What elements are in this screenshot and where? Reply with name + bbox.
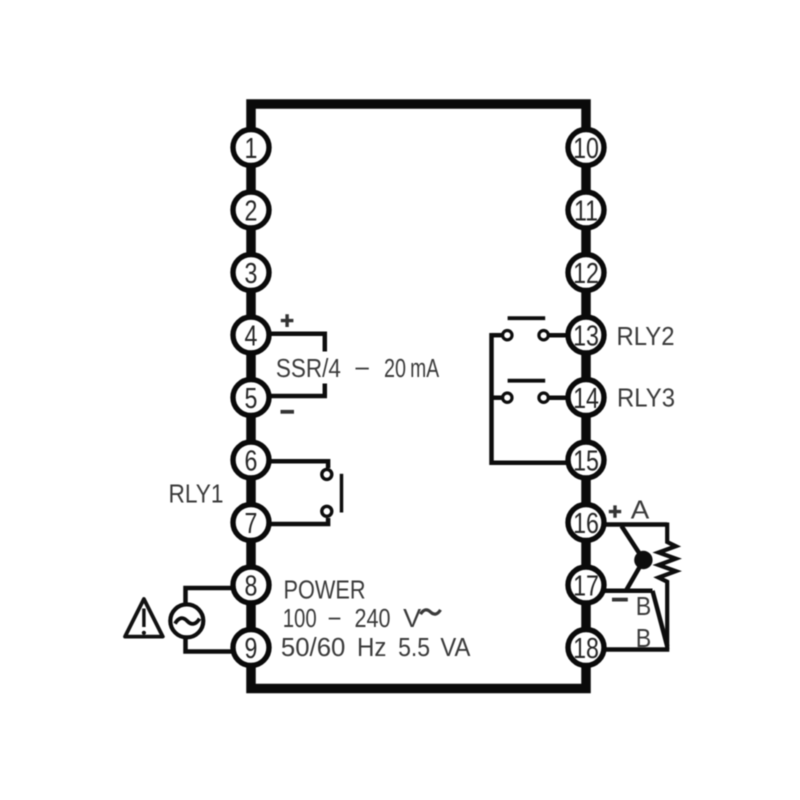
svg-text:17: 17 (573, 569, 599, 602)
terminal 17 (568, 567, 604, 603)
RLY2 contact point right (539, 331, 548, 340)
label 50/60 Hz 5.5 VA (281, 634, 471, 662)
svg-text:18: 18 (573, 631, 599, 664)
svg-text:A: A (631, 497, 650, 525)
svg-text:20: 20 (384, 355, 406, 383)
terminal 2 (233, 192, 269, 228)
svg-text:12: 12 (573, 256, 599, 289)
svg-text:V: V (403, 605, 421, 633)
svg-text:10: 10 (573, 131, 599, 164)
svg-text:16: 16 (573, 506, 599, 539)
svg-text:5.5: 5.5 (398, 634, 430, 662)
RLY1 contact point lower (322, 506, 332, 516)
label 100 - 240 V~ (283, 605, 441, 633)
wire SSR bracket vertical upper (323, 332, 328, 352)
RLY1 contact point upper (322, 469, 332, 479)
plus sign terminal 4 (281, 314, 294, 327)
RLY2 contact point left (503, 331, 512, 340)
svg-text:B: B (636, 593, 652, 621)
label RLY2 (617, 323, 675, 351)
svg-text:7: 7 (245, 506, 258, 539)
svg-text:RLY2: RLY2 (617, 323, 675, 351)
wire terminal 8 to AC source (186, 588, 252, 603)
panel outline (251, 104, 586, 689)
svg-text:3: 3 (245, 256, 258, 289)
svg-text:50/60: 50/60 (281, 634, 346, 662)
terminal 9 (233, 630, 269, 666)
terminal 11 (568, 192, 604, 228)
terminal 12 (568, 255, 604, 291)
terminal 13 (568, 317, 604, 353)
svg-text:RLY3: RLY3 (617, 385, 675, 413)
svg-text:−: − (354, 355, 370, 383)
label POWER (284, 577, 366, 605)
AC source sine (175, 618, 200, 624)
wire terminal 16 to junction (thermocouple +) (622, 526, 644, 560)
warning exclamation bar (142, 609, 145, 628)
label A (631, 497, 650, 525)
svg-text:Hz: Hz (357, 634, 387, 662)
svg-text:−: − (328, 605, 342, 633)
wire terminal 7 to RLY1 contact (251, 518, 328, 524)
label RLY1 (169, 481, 224, 509)
wire RLY2 contact to terminal 13 (548, 333, 566, 338)
plus sign terminal 16 (609, 505, 621, 517)
wire terminal 9 to AC source (186, 639, 252, 652)
wire terminal 5 to SSR bracket bottom (251, 394, 327, 399)
svg-text:POWER: POWER (284, 577, 366, 605)
wire terminal 17 (B) (586, 589, 653, 594)
svg-text:4: 4 (245, 319, 258, 352)
wire RLY2 contact left to rail (492, 333, 504, 338)
terminal 8 (233, 567, 269, 603)
label RLY3 (617, 385, 675, 413)
warning exclamation dot (142, 631, 146, 635)
svg-text:SSR/4: SSR/4 (276, 355, 341, 383)
wire B join diagonal (653, 591, 668, 647)
terminal 18 (568, 630, 604, 666)
wire terminal 16 to RTD resistor (A) (586, 522, 667, 527)
svg-text:100: 100 (283, 605, 317, 633)
AC source circle (170, 604, 203, 637)
svg-text:14: 14 (573, 381, 599, 414)
RLY3 contact point right (539, 393, 548, 402)
svg-text:6: 6 (245, 444, 258, 477)
svg-text:mA: mA (410, 355, 439, 383)
terminal 7 (233, 505, 269, 541)
svg-text:VA: VA (440, 634, 470, 662)
svg-text:13: 13 (573, 319, 599, 352)
terminal 3 (233, 255, 269, 291)
RTD resistor R (zigzag) (659, 523, 676, 650)
wire RLY3 contact left to rail (492, 395, 504, 400)
wire rail contacts to terminal 15 (492, 333, 567, 463)
wire terminal 6 to RLY1 contact (251, 461, 328, 468)
minus sign terminal 17 (612, 598, 628, 602)
svg-text:2: 2 (245, 194, 258, 227)
RLY2 contact bar (508, 316, 546, 320)
svg-text:1: 1 (245, 131, 258, 164)
svg-text:11: 11 (574, 194, 598, 227)
junction dot (634, 551, 652, 569)
wire terminal 18 (B) (586, 647, 669, 652)
warning triangle (125, 599, 163, 637)
terminal 10 (568, 130, 604, 166)
wire RLY3 contact to terminal 14 (548, 395, 566, 400)
svg-text:B: B (636, 625, 652, 653)
terminal 4 (233, 317, 269, 353)
svg-text:RLY1: RLY1 (169, 481, 224, 509)
wire junction to terminal 17 (627, 561, 644, 590)
RLY3 contact point left (503, 393, 512, 402)
label B upper (636, 593, 652, 621)
RLY1 contact blade (340, 474, 344, 513)
label SSR/4 - 20 mA (276, 355, 439, 383)
minus sign terminal 5 (281, 410, 295, 414)
wire terminal 4 to SSR bracket top (251, 332, 327, 337)
wire SSR bracket vertical lower (323, 384, 328, 397)
terminal 6 (233, 442, 269, 478)
terminal 15 (568, 442, 604, 478)
svg-text:240: 240 (355, 605, 391, 633)
svg-text:8: 8 (245, 569, 258, 602)
terminal 14 (568, 380, 604, 416)
terminal 16 (568, 505, 604, 541)
terminal 5 (233, 380, 269, 416)
terminal 1 (233, 130, 269, 166)
svg-text:9: 9 (245, 631, 258, 664)
svg-text:15: 15 (573, 444, 599, 477)
RLY3 contact bar (508, 379, 546, 383)
svg-text:5: 5 (245, 381, 258, 414)
label B lower (636, 625, 652, 653)
